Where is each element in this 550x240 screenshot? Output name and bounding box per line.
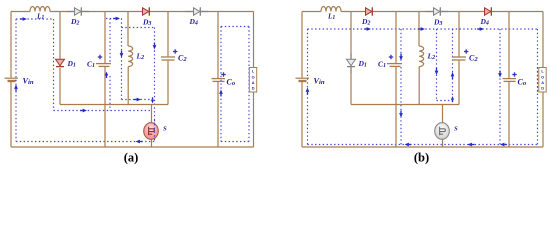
arrow down D3-C2 loop (a) <box>153 43 157 50</box>
arrow after L2 node (b) <box>418 27 425 31</box>
dashed branch Co (b) <box>499 29 501 145</box>
plus polarity mark <box>98 55 102 59</box>
arrow up into C2 (b) <box>451 72 455 79</box>
dashed current loop: input Vin-L1-D1-S (a) <box>16 18 54 20</box>
inductor L1 <box>30 7 50 12</box>
svg-text:(a): (a) <box>124 151 139 165</box>
svg-text:D: D <box>252 86 255 91</box>
wire D1 branch <box>350 12 352 60</box>
plus polarity mark <box>221 72 225 76</box>
wire dashed over load (b) <box>537 68 539 93</box>
svg-text:O: O <box>541 74 544 79</box>
arrow up through Co (a) <box>219 90 223 97</box>
inductor L2 <box>418 12 420 47</box>
arrow D1 to S (a) <box>80 109 87 113</box>
arrow bottom return right (b) <box>500 143 507 147</box>
wire D1 branch <box>59 12 61 60</box>
arrow down beside L2 (b) <box>435 68 439 75</box>
svg-text:O: O <box>252 74 255 79</box>
diode D2 <box>366 7 373 15</box>
arrow after D4 (b) <box>477 27 484 31</box>
wire left side <box>301 12 303 78</box>
arrow down C1 leg (b) <box>399 111 403 118</box>
arrow up through Vin (b) <box>306 88 310 95</box>
switch S <box>442 105 444 148</box>
svg-text:D: D <box>541 86 544 91</box>
diode D1 <box>56 59 65 66</box>
arrow bottom return left (b) <box>405 143 412 147</box>
wire mid rail <box>60 104 168 106</box>
arrow into C1 top (b) <box>399 54 403 61</box>
dashed right side through load (b) <box>537 29 539 145</box>
diode D1 <box>347 53 356 73</box>
svg-text:(b): (b) <box>414 151 429 165</box>
diode D4 <box>186 7 208 15</box>
dashed loop L2-C2 (b) <box>436 29 438 101</box>
dashed loop Co-load (a) <box>221 26 249 28</box>
arrow down beside Co (b) <box>498 71 502 78</box>
load <box>253 12 255 148</box>
diode D4 <box>485 7 492 15</box>
dashed loop D3-C2-S (a) <box>122 27 155 29</box>
dashed left side (b) <box>307 29 309 145</box>
dashed bottom return (b) <box>308 144 538 146</box>
diode D2 <box>67 7 89 15</box>
svg-text:S: S <box>454 126 458 133</box>
dashed branch C1 (b) <box>400 29 402 62</box>
plus polarity mark <box>173 49 177 53</box>
capacitor Co <box>508 12 510 79</box>
wire left side <box>10 12 12 78</box>
wire mid rail <box>351 104 459 106</box>
arrow into S top node (a) <box>151 97 154 103</box>
dashed loop L2-C1 (a) <box>121 19 123 100</box>
capacitor C1 <box>395 12 397 64</box>
switch S <box>151 105 153 148</box>
wire bottom rail <box>11 146 254 148</box>
arrow into C1 bottom (a) <box>105 72 108 78</box>
svg-text:A: A <box>541 80 544 85</box>
inductor L2 <box>127 12 129 47</box>
diode D3 <box>426 7 448 15</box>
battery Vin <box>296 77 310 79</box>
capacitor Co <box>217 12 219 79</box>
load <box>542 12 544 148</box>
capacitor C1 <box>104 12 106 64</box>
capacitor C2 <box>167 12 169 57</box>
dashed top path Vin-L1-D2-D4 (b) <box>308 28 538 30</box>
arrow up through Vin (a) <box>14 85 18 92</box>
svg-text:S: S <box>163 126 167 133</box>
arrow bottom return mid (b) <box>468 143 475 147</box>
wire bottom rail <box>302 146 543 148</box>
capacitor C2 <box>458 12 460 57</box>
plus polarity mark <box>389 55 393 59</box>
arrow C1 top loop (a) <box>113 17 120 21</box>
plus polarity mark <box>512 72 516 76</box>
arrow turn up to C2 (b) <box>451 96 454 102</box>
dashed bottom return (a) <box>16 141 155 143</box>
diode D3 <box>143 7 150 15</box>
arrow toward S node (a) <box>134 98 141 102</box>
wire top rail <box>302 11 321 13</box>
svg-text:A: A <box>252 80 255 85</box>
plus polarity mark <box>464 49 468 53</box>
arrow after D2 (b) <box>364 27 371 31</box>
inductor L1 <box>321 7 341 12</box>
arrow input loop through L1 (a) <box>20 17 27 21</box>
dashed loop C1 (a) <box>109 19 111 63</box>
arrow bottom return (a) <box>136 140 143 144</box>
wire dashed over S (a) <box>154 120 156 142</box>
battery Vin <box>5 77 19 79</box>
arrow down beside L2 (a) <box>120 51 124 58</box>
wire top rail <box>11 11 30 13</box>
